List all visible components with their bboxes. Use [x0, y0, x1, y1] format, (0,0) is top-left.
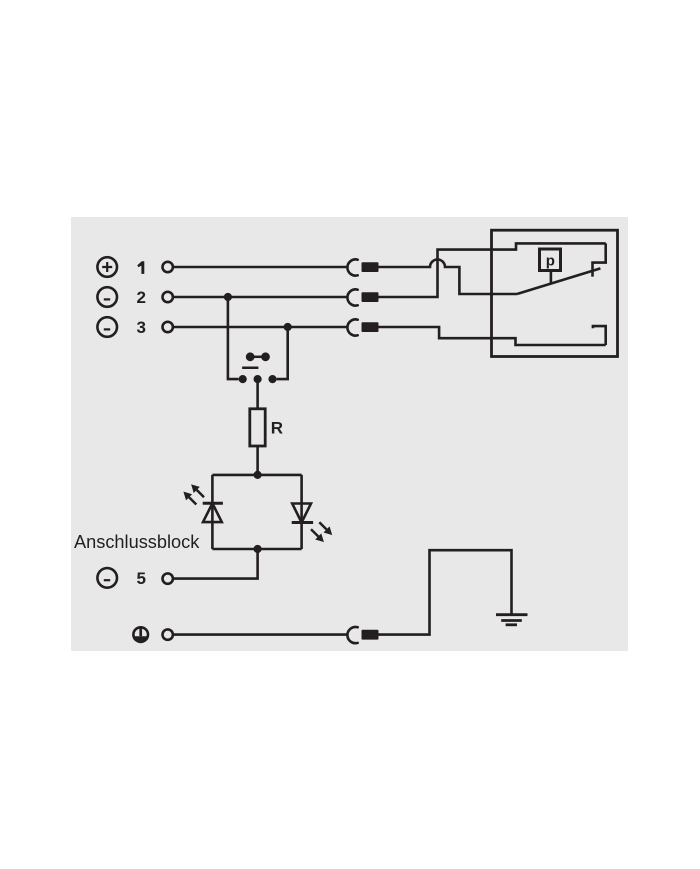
lower fixed contact	[593, 326, 606, 345]
svg-text:5: 5	[137, 569, 146, 588]
wire row 3 to lower fixed contact	[379, 327, 606, 345]
node terminal 5	[163, 573, 173, 583]
LED block bottom wire	[212, 548, 301, 551]
earth terminal symbol	[133, 627, 148, 642]
wire pushbutton to resistor	[256, 379, 259, 409]
connector socket row 1	[347, 259, 357, 275]
resistor R	[250, 409, 265, 446]
svg-text:R: R	[271, 418, 283, 437]
svg-text:2: 2	[137, 288, 146, 307]
LED D1 (left, cathode up)	[185, 486, 223, 523]
switch lever	[517, 268, 600, 294]
label 1	[137, 261, 144, 274]
wire plug to ground	[379, 550, 512, 634]
svg-text:p: p	[546, 252, 555, 269]
connector plug row 2	[362, 292, 379, 302]
junction LED top	[254, 471, 262, 479]
junction row 3 to pushbutton	[284, 323, 292, 331]
connector plug earth	[362, 630, 379, 640]
pushbutton contact left	[239, 375, 247, 383]
actuator link	[550, 271, 553, 285]
pushbutton actuator dash	[242, 366, 258, 369]
LED block left wire	[211, 475, 214, 549]
pushbutton wire from row 2	[228, 297, 239, 379]
terminal symbol T2 (-)	[97, 287, 117, 307]
svg-text:Anschlussblock: Anschlussblock	[74, 532, 200, 552]
pushbutton bridge	[246, 352, 270, 361]
LED block right wire	[300, 475, 303, 549]
node earth terminal	[163, 629, 173, 639]
junction LED bottom	[254, 545, 262, 553]
terminal symbol T1 (+)	[97, 257, 117, 277]
connector socket row 2	[347, 289, 357, 305]
LED D2 (right, cathode down)	[292, 504, 331, 541]
svg-text:3: 3	[137, 318, 146, 337]
wire earth row	[174, 633, 348, 636]
connector socket row 3	[347, 319, 357, 335]
wire row 5 to LED block	[174, 549, 258, 579]
wire row 1 to switch lever (hump over row-2 riser)	[379, 260, 518, 294]
pressure sensor p box	[540, 249, 561, 271]
upper fixed contact	[593, 243, 606, 276]
node terminal 3	[163, 322, 173, 332]
pushbutton contact middle	[254, 375, 262, 383]
node terminal 2	[163, 292, 173, 302]
terminal symbol T3 (-)	[97, 317, 117, 337]
connector plug row 3	[362, 322, 379, 332]
node terminal 1	[163, 262, 173, 272]
pushbutton wire from row 3	[277, 327, 288, 379]
connector socket earth	[347, 627, 357, 643]
pushbutton contact right	[268, 375, 276, 383]
wire row 2	[174, 296, 348, 299]
LED block top wire	[212, 474, 301, 477]
wire row 2 to upper fixed contact	[379, 243, 606, 297]
ground symbol	[496, 615, 528, 625]
pressure switch enclosure U1	[492, 230, 618, 356]
junction row 2 to pushbutton	[224, 293, 232, 301]
terminal symbol T5 (-)	[97, 568, 117, 588]
wire row 1	[174, 266, 348, 269]
wire resistor to LED block	[256, 446, 259, 475]
wire row 3	[174, 326, 348, 329]
connector plug row 1	[362, 262, 379, 272]
